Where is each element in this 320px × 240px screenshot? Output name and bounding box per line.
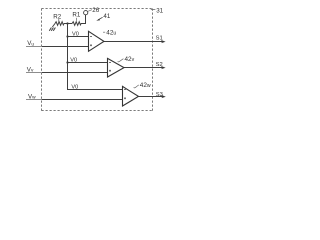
svg-text:Vu: Vu — [27, 40, 34, 47]
svg-text:41: 41 — [103, 13, 110, 20]
svg-text:R1: R1 — [72, 12, 80, 19]
svg-text:V0: V0 — [70, 57, 77, 63]
svg-text:31: 31 — [156, 7, 163, 14]
svg-text:26: 26 — [92, 7, 99, 14]
svg-text:Vv: Vv — [27, 66, 34, 73]
svg-text:R2: R2 — [53, 13, 61, 20]
svg-text:Vw: Vw — [28, 93, 36, 100]
svg-text:42u: 42u — [106, 29, 116, 36]
svg-text:V0: V0 — [71, 84, 78, 90]
svg-text:42v: 42v — [125, 56, 135, 63]
svg-text:V0: V0 — [72, 32, 79, 38]
svg-text:S1: S1 — [156, 36, 163, 42]
svg-text:S2: S2 — [156, 62, 163, 68]
svg-text:S3: S3 — [156, 92, 163, 98]
svg-text:42w: 42w — [140, 82, 151, 89]
